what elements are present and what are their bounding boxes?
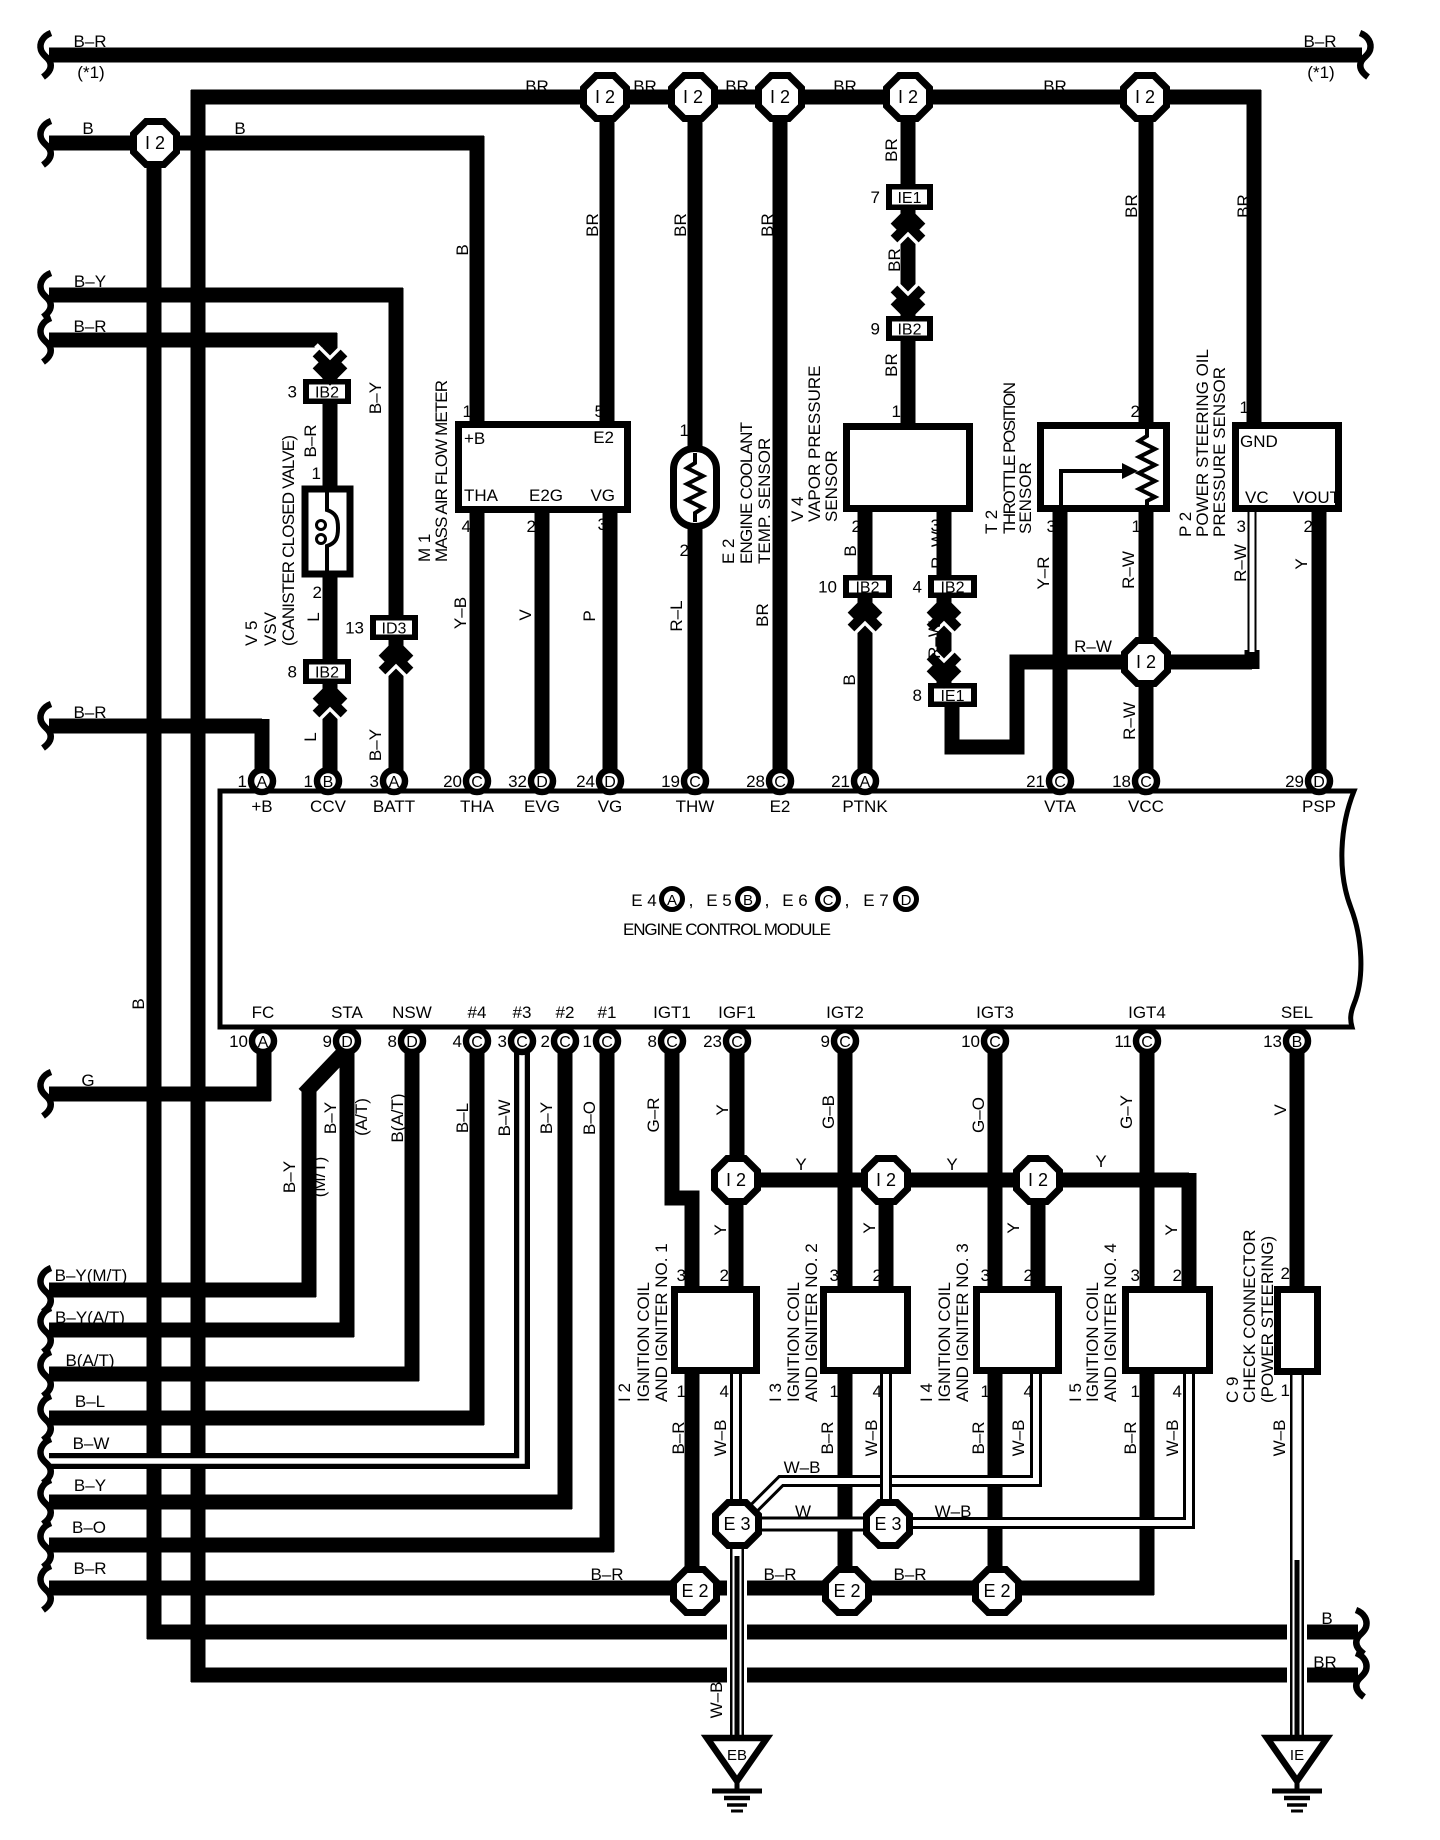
svg-text:I 2: I 2: [595, 87, 615, 107]
wire B drop to MAF +B pin 1: [470, 136, 485, 427]
svg-text:IGNITION COIL: IGNITION COIL: [1083, 1282, 1102, 1402]
ECM pin 9 C (IGT2): [821, 1030, 856, 1052]
svg-text:B–Y: B–Y: [366, 382, 385, 414]
ECM pin 18 C (VCC): [1112, 770, 1157, 792]
wire Y I2 octagon drop to coil 2 pin 2: [879, 1200, 894, 1292]
svg-text:THW: THW: [676, 797, 715, 816]
svg-text:Y: Y: [1292, 558, 1311, 569]
wire B vapor sensor pin 2 to IB2 10: [858, 510, 873, 577]
svg-text:+B: +B: [464, 429, 485, 448]
arrow into IB2 8: [316, 688, 344, 722]
svg-text:D: D: [341, 1034, 353, 1051]
svg-text:R–W: R–W: [1231, 544, 1250, 582]
wire B-R entry to corner above +B: [49, 719, 262, 734]
ECM pin 2 C (#2): [541, 1030, 576, 1052]
svg-text:V: V: [516, 609, 535, 621]
svg-text:(CANISTER CLOSED VALVE): (CANISTER CLOSED VALVE): [279, 435, 298, 646]
wire B(A/T) entry to corner: [49, 1367, 419, 1382]
ECM pin 1 C (#1): [583, 1030, 618, 1052]
arrow into IB2 3: [316, 345, 344, 379]
wire R-W T2 pin 1 to I2 octagon: [1139, 508, 1154, 648]
ECM pin 9 D (STA): [323, 1030, 358, 1052]
svg-text:R–W: R–W: [1074, 637, 1112, 656]
connector E3 no.2: [867, 1503, 910, 1546]
wire Y I2 octagon drop to coil 3 pin 2: [1031, 1200, 1046, 1292]
break symbol B-R top right: [1360, 33, 1371, 77]
wire Y-B MAF THA to ECM pin 20: [470, 510, 485, 772]
svg-text:1: 1: [312, 464, 321, 483]
svg-text:W–B: W–B: [862, 1420, 881, 1457]
svg-text:B–R: B–R: [73, 317, 106, 336]
wire R-W vapor sensor pin 3 to IB2 4: [937, 510, 952, 577]
svg-text:Y: Y: [795, 1155, 806, 1174]
svg-text:E2: E2: [593, 428, 614, 447]
svg-text:4: 4: [1024, 1382, 1033, 1401]
ground IE: [1267, 1738, 1327, 1811]
wire BR from I2 octagon to coolant sensor pin 1: [688, 97, 703, 450]
svg-text:IB2: IB2: [940, 580, 964, 597]
wire B-R drop into IB2 3: [323, 333, 338, 380]
svg-text:E 3: E 3: [874, 1514, 901, 1534]
svg-text:CCV: CCV: [310, 797, 347, 816]
component name I3 ignition coil and igniter no.2: [766, 1243, 821, 1402]
svg-text:2: 2: [720, 1266, 729, 1285]
svg-text:R–W: R–W: [928, 531, 947, 569]
wire B-Y drop to ID3: [389, 288, 404, 618]
svg-text:R–W: R–W: [1119, 551, 1138, 589]
svg-text:3: 3: [370, 772, 379, 791]
svg-text:B–R: B–R: [893, 1565, 926, 1584]
svg-text:(*1): (*1): [77, 63, 104, 82]
svg-text:3: 3: [498, 1032, 507, 1051]
wire R-W I2 octagon to ECM VCC pin 18: [1139, 676, 1154, 772]
svg-text:SEL: SEL: [1281, 1003, 1313, 1022]
wire B from IB2 10 to ECM PTNK pin 21: [858, 596, 873, 772]
wire R-W thin link P2 VC pin 3: [1248, 512, 1257, 652]
svg-text:B–Y: B–Y: [321, 1102, 340, 1134]
svg-text:I 2: I 2: [1135, 87, 1155, 107]
svg-text:I 2: I 2: [876, 1170, 896, 1190]
svg-text:B–R: B–R: [73, 32, 106, 51]
svg-text:VG: VG: [590, 486, 615, 505]
wire R-W corner stub below VC line: [1245, 650, 1260, 669]
svg-text:3: 3: [677, 1266, 686, 1285]
svg-text:Y: Y: [1095, 1152, 1106, 1171]
svg-text:B–Y: B–Y: [537, 1102, 556, 1134]
svg-text:2: 2: [873, 1266, 882, 1285]
component name I5 ignition coil and igniter no.4: [1066, 1243, 1120, 1402]
svg-text:21: 21: [1026, 772, 1045, 791]
wire G-B IGT2 to coil 2 pin 3: [838, 1048, 853, 1292]
svg-text:11: 11: [1114, 1032, 1132, 1051]
svg-text:E2G: E2G: [529, 486, 563, 505]
component name M1 mass air flow meter: [415, 380, 451, 562]
svg-text:1: 1: [1281, 1381, 1290, 1400]
svg-text:E 2: E 2: [719, 538, 738, 564]
ECM pin 3 C (#3): [498, 1030, 533, 1052]
wire BR between IE1 7 and IB2 9: [901, 208, 916, 318]
svg-text:BR: BR: [882, 138, 901, 162]
svg-text:W–B: W–B: [1270, 1420, 1289, 1457]
svg-text:Y–B: Y–B: [451, 597, 470, 629]
wire B-R drop to +B pin: [255, 719, 270, 772]
svg-text:E2: E2: [770, 797, 791, 816]
svg-text:BR: BR: [885, 248, 904, 272]
wire Y corner drop to coil 4 pin 2: [1182, 1173, 1197, 1292]
svg-text:W–B: W–B: [707, 1682, 726, 1719]
svg-text:Y: Y: [860, 1222, 879, 1233]
wire W-B E3 octagon to EB ground: [727, 1545, 747, 1740]
ground EB: [707, 1738, 767, 1811]
junction box IE1 pin 8: [913, 683, 977, 707]
wire B-Y(M/T) entry to corner: [49, 1283, 316, 1298]
svg-text:EB: EB: [727, 1747, 747, 1764]
arrow into IE1 7: [894, 213, 922, 247]
svg-text:W–B: W–B: [1009, 1420, 1028, 1457]
svg-text:I 2: I 2: [145, 133, 165, 153]
svg-text:B–R: B–R: [969, 1421, 988, 1454]
break symbol B-Y low: [40, 1480, 51, 1524]
svg-text:EVG: EVG: [524, 797, 560, 816]
svg-text:3: 3: [981, 1266, 990, 1285]
ECM pin 1 B (CCV): [304, 770, 339, 792]
svg-text:BR: BR: [671, 213, 690, 237]
wire L from IB2 8 to CCV pin: [323, 683, 338, 772]
svg-text:R–W: R–W: [1120, 702, 1139, 740]
svg-text:E 2: E 2: [681, 1581, 708, 1601]
svg-text:IGT3: IGT3: [976, 1003, 1014, 1022]
wire BR bus vertical left drop to bottom BR bus: [191, 90, 206, 1682]
svg-text:23: 23: [703, 1032, 722, 1051]
svg-text:I 2: I 2: [615, 1383, 634, 1402]
svg-text:B–Y: B–Y: [74, 272, 106, 291]
svg-text:AND IGNITER NO. 3: AND IGNITER NO. 3: [953, 1243, 972, 1402]
svg-text:W–B: W–B: [711, 1420, 730, 1457]
svg-text:BATT: BATT: [373, 797, 415, 816]
svg-text:29: 29: [1285, 772, 1304, 791]
wire B-L entry to corner: [49, 1411, 484, 1426]
svg-text:9: 9: [871, 320, 880, 339]
svg-text:IGF1: IGF1: [718, 1003, 756, 1022]
svg-text:I 2: I 2: [1136, 652, 1156, 672]
svg-text:PRESSURE SENSOR: PRESSURE SENSOR: [1210, 367, 1229, 537]
connector I2 on B wire: [134, 122, 177, 165]
svg-text:2: 2: [1304, 517, 1313, 536]
svg-text:4: 4: [462, 517, 471, 536]
svg-text:4: 4: [453, 1032, 462, 1051]
svg-text:G–Y: G–Y: [1117, 1095, 1136, 1129]
svg-text:G–R: G–R: [644, 1098, 663, 1133]
arrow into IB2 10: [851, 602, 879, 636]
wire Y-R T2 pin 3 to ECM VTA pin 21: [1053, 510, 1068, 772]
svg-text:G–O: G–O: [969, 1097, 988, 1133]
svg-text:1: 1: [830, 1382, 839, 1401]
ECM pin 13 B (SEL): [1263, 1030, 1308, 1052]
wire G-O IGT3 to coil 3 pin 3: [988, 1048, 1003, 1292]
svg-text:B–R: B–R: [1121, 1421, 1140, 1454]
svg-text:2: 2: [527, 517, 536, 536]
svg-text:2: 2: [680, 541, 689, 560]
svg-text:8: 8: [388, 1032, 397, 1051]
svg-text:BR: BR: [583, 213, 602, 237]
wire B-O entry to corner: [49, 1538, 614, 1553]
svg-text:1: 1: [1132, 517, 1141, 536]
svg-text:Y: Y: [946, 1155, 957, 1174]
svg-text:I 2: I 2: [683, 87, 703, 107]
svg-text:32: 32: [508, 772, 527, 791]
power steering oil pressure sensor P2 box: [1236, 426, 1341, 509]
svg-text:B–R: B–R: [73, 703, 106, 722]
connector E2 no.3: [976, 1570, 1019, 1613]
ECM connectors E4 A, E5 B, E6 C, E7 D: [631, 889, 916, 911]
svg-text:B(A/T): B(A/T): [65, 1351, 114, 1370]
ECM pin 3 A (BATT): [370, 770, 405, 792]
svg-text:C: C: [1141, 1034, 1153, 1051]
svg-text:V: V: [1271, 1104, 1290, 1116]
svg-text:4: 4: [913, 578, 922, 597]
svg-text:B–O: B–O: [72, 1518, 106, 1537]
svg-text:E 6: E 6: [782, 891, 808, 910]
svg-text:,: ,: [844, 890, 849, 910]
svg-text:Y: Y: [711, 1224, 730, 1235]
ECM pin 19 C (THW): [661, 770, 706, 792]
svg-text:BR: BR: [725, 77, 749, 96]
wire BR bus right corner drop to P2 GND: [1247, 90, 1262, 428]
svg-text:STA: STA: [331, 1003, 363, 1022]
engine coolant temp sensor E2 capsule: [674, 449, 717, 527]
svg-text:28: 28: [746, 772, 765, 791]
svg-text:B–W: B–W: [73, 1434, 110, 1453]
svg-text:IB2: IB2: [855, 580, 879, 597]
component name P2 power steering oil pressure sensor: [1176, 349, 1229, 537]
svg-text:BR: BR: [833, 77, 857, 96]
connector I2 on BR bus at coolant sensor: [672, 76, 715, 119]
ECM pin 1 A (+B): [238, 770, 273, 792]
svg-text:21: 21: [831, 772, 850, 791]
break symbol B-R top left: [40, 33, 51, 77]
svg-text:G–B: G–B: [819, 1095, 838, 1129]
svg-text:IB2: IB2: [315, 385, 339, 402]
wire B-Y entry to corner: [49, 288, 403, 303]
wire B-O riser to ECM pin 1: [600, 1048, 615, 1552]
svg-text:2: 2: [1173, 1266, 1182, 1285]
svg-text:B: B: [743, 892, 753, 909]
ECM pin 20 C (THA): [443, 770, 488, 792]
connector E2 no.2: [826, 1570, 869, 1613]
svg-text:B–Y(M/T): B–Y(M/T): [55, 1266, 128, 1285]
arrow into IE1 8: [930, 648, 958, 682]
svg-text:3: 3: [598, 515, 607, 534]
svg-text:8: 8: [648, 1032, 657, 1051]
svg-text:I 2: I 2: [898, 87, 918, 107]
wire Y bus from I2 octagon to corner: [736, 1173, 1189, 1188]
wire W-B check connector pin 1 to IE ground: [1287, 1372, 1307, 1740]
component name T2 throttle position sensor: [982, 382, 1035, 534]
wire BR from I2 octagon to MAF E2 pin 5: [600, 97, 615, 427]
svg-text:THA: THA: [460, 797, 495, 816]
wire W-B coil 3 pin 4 elbow to E3 octagon diagonal: [750, 1370, 1036, 1512]
svg-text:PTNK: PTNK: [842, 797, 888, 816]
svg-text:R–L: R–L: [667, 600, 686, 631]
svg-text:D: D: [536, 774, 548, 791]
svg-text:Y: Y: [713, 1104, 732, 1115]
svg-text:Y: Y: [1004, 1222, 1023, 1233]
svg-text:B–R: B–R: [301, 424, 320, 457]
svg-text:13: 13: [345, 619, 364, 638]
svg-text:3: 3: [288, 383, 297, 402]
arrow into ID3: [382, 645, 410, 679]
svg-text:E 3: E 3: [723, 1514, 750, 1534]
mass air flow meter M1 box: [459, 425, 628, 510]
wire Y I2 octagon drop to coil 1 pin 2: [729, 1200, 744, 1292]
wire R-W elbow from IE1 8 up to R-W bus: [952, 662, 1129, 747]
svg-text:IE: IE: [1290, 1747, 1304, 1764]
connector I2 on BR bus at VCC: [1124, 76, 1167, 119]
wire W-B coil 1 pin 4 to E3 octagon: [730, 1370, 742, 1505]
svg-text:BR: BR: [1043, 77, 1067, 96]
ECM pin 8 D (NSW): [388, 1030, 423, 1052]
svg-text:B–R: B–R: [763, 1565, 796, 1584]
svg-text:Y–R: Y–R: [1034, 556, 1053, 589]
svg-text:(M/T): (M/T): [310, 1157, 329, 1198]
connector I2 on Y bus no.2: [865, 1159, 908, 1202]
ignition coil and igniter no.1 I2 box: [675, 1290, 757, 1371]
svg-text:#1: #1: [598, 1003, 617, 1022]
svg-text:C: C: [823, 892, 834, 909]
wire B-Y(M/T) riser: [302, 1088, 317, 1297]
svg-text:W–B: W–B: [935, 1502, 972, 1521]
svg-text:D: D: [1313, 774, 1325, 791]
svg-text:ID3: ID3: [382, 621, 407, 638]
svg-text:2: 2: [541, 1032, 550, 1051]
svg-text:IGNITION COIL: IGNITION COIL: [935, 1282, 954, 1402]
svg-text:9: 9: [821, 1032, 830, 1051]
svg-text:GND: GND: [1240, 432, 1278, 451]
svg-text:B–R: B–R: [590, 1565, 623, 1584]
break symbol G left: [40, 1072, 51, 1116]
wire B(A/T) riser to NSW pin: [405, 1048, 420, 1381]
svg-text:24: 24: [576, 772, 595, 791]
wire B left entry to corner: [49, 136, 484, 151]
svg-text:VCC: VCC: [1128, 797, 1164, 816]
wire V SEL to check connector pin 2: [1290, 1048, 1305, 1292]
wire B-R coil 2 pin 1 to E2 octagon: [838, 1370, 853, 1591]
ECM pin 21 C (VTA): [1026, 770, 1071, 792]
ECM pin 23 C (IGF1): [703, 1030, 748, 1052]
svg-text:I 2: I 2: [770, 87, 790, 107]
svg-text:8: 8: [288, 663, 297, 682]
wire B-R coil 3 pin 1 to E2 octagon: [988, 1370, 1003, 1591]
wire G entry to corner below FC: [49, 1087, 271, 1102]
wire BR from I2 octagon to IE1 7: [901, 97, 916, 188]
wire B-R from IB2 3 to VSV pin 1: [323, 404, 338, 489]
svg-text:I 4: I 4: [917, 1383, 936, 1402]
break symbol B left: [40, 121, 51, 165]
junction box ID3 pin 13: [345, 615, 418, 640]
svg-text:C: C: [689, 774, 701, 791]
svg-text:PSP: PSP: [1302, 797, 1336, 816]
wire W-B coil 2 pin 4 to E3 octagon: [880, 1370, 892, 1505]
wire L from VSV pin 2 to IB2 8: [323, 574, 338, 661]
svg-text:BR: BR: [753, 603, 772, 627]
arrow into IB2 4: [930, 602, 958, 636]
svg-text:1: 1: [304, 772, 313, 791]
svg-text:ENGINE CONTROL MODULE: ENGINE CONTROL MODULE: [623, 920, 831, 939]
ignition coil and igniter no.4 I5 box: [1126, 1290, 1210, 1371]
svg-text:2: 2: [852, 517, 861, 536]
svg-text:C: C: [471, 1034, 483, 1051]
svg-text:13: 13: [1263, 1032, 1282, 1051]
svg-text:1: 1: [1240, 398, 1249, 417]
wire P MAF VG to ECM pin 24: [603, 510, 618, 772]
svg-text:VC: VC: [1245, 488, 1269, 507]
svg-text:IB2: IB2: [897, 322, 921, 339]
junction box IB2 pin 9: [871, 316, 933, 341]
break symbol B-L: [40, 1396, 51, 1440]
svg-text:L: L: [304, 612, 323, 621]
svg-text:C: C: [839, 1034, 851, 1051]
svg-text:VTA: VTA: [1044, 797, 1076, 816]
svg-text:B: B: [82, 119, 93, 138]
wire B-R bottom bus through E2 octagons: [49, 1581, 1154, 1596]
svg-text:SENSOR: SENSOR: [822, 450, 841, 522]
svg-text:L: L: [301, 732, 320, 741]
wire B-Y(A/T) riser to STA pin: [340, 1048, 355, 1337]
svg-text:1: 1: [981, 1382, 990, 1401]
svg-text:(*1): (*1): [1307, 63, 1334, 82]
svg-text:3: 3: [830, 1266, 839, 1285]
svg-text:#4: #4: [468, 1003, 487, 1022]
svg-text:A: A: [667, 892, 677, 909]
wire B-Y riser to ECM pin 2: [558, 1048, 573, 1509]
svg-text:E 5: E 5: [706, 891, 732, 910]
svg-text:FC: FC: [252, 1003, 275, 1022]
ECM pin 21 A (PTNK): [831, 770, 876, 792]
svg-text:8: 8: [913, 686, 922, 705]
svg-text:B: B: [841, 545, 860, 556]
wire Y P2 VOUT pin 2 to ECM PSP pin 29: [1312, 510, 1327, 772]
connector I2 on R-W at VCC: [1125, 641, 1168, 684]
svg-text:20: 20: [443, 772, 462, 791]
svg-text:18: 18: [1112, 772, 1131, 791]
svg-text:(A/T): (A/T): [352, 1098, 371, 1136]
wire B-R entry to corner above IB2 3: [49, 333, 337, 348]
svg-text:E 4: E 4: [631, 891, 657, 910]
svg-text:7: 7: [871, 188, 880, 207]
wire BR bus top horizontal: [191, 90, 1261, 105]
connector I2 on Y bus no.1: [715, 1159, 758, 1202]
break symbol B bottom right: [1356, 1610, 1367, 1654]
wire B-W entry and riser to ECM pin 3 (white core): [49, 1048, 522, 1461]
svg-text:10: 10: [961, 1032, 980, 1051]
svg-text:C: C: [559, 1034, 571, 1051]
arrow into IB2 9: [894, 281, 922, 315]
svg-text:IGNITION COIL: IGNITION COIL: [784, 1282, 803, 1402]
svg-text:IGNITION COIL: IGNITION COIL: [634, 1282, 653, 1402]
junction box IB2 pin 8: [288, 659, 351, 684]
wire BR from IB2 9 to vapor sensor pin 1: [901, 339, 916, 427]
svg-text:1: 1: [583, 1032, 592, 1051]
break symbol B-Y left: [40, 273, 51, 317]
svg-text:2: 2: [1281, 1264, 1290, 1283]
svg-text:AND IGNITER NO. 2: AND IGNITER NO. 2: [802, 1243, 821, 1402]
wire B-R top bus (*1): [49, 48, 1362, 63]
svg-text:B–R: B–R: [669, 1421, 688, 1454]
svg-text:E 2: E 2: [833, 1581, 860, 1601]
break symbol B-R low: [40, 1566, 51, 1610]
svg-text:+B: +B: [251, 797, 272, 816]
svg-text:BR: BR: [1234, 194, 1253, 218]
